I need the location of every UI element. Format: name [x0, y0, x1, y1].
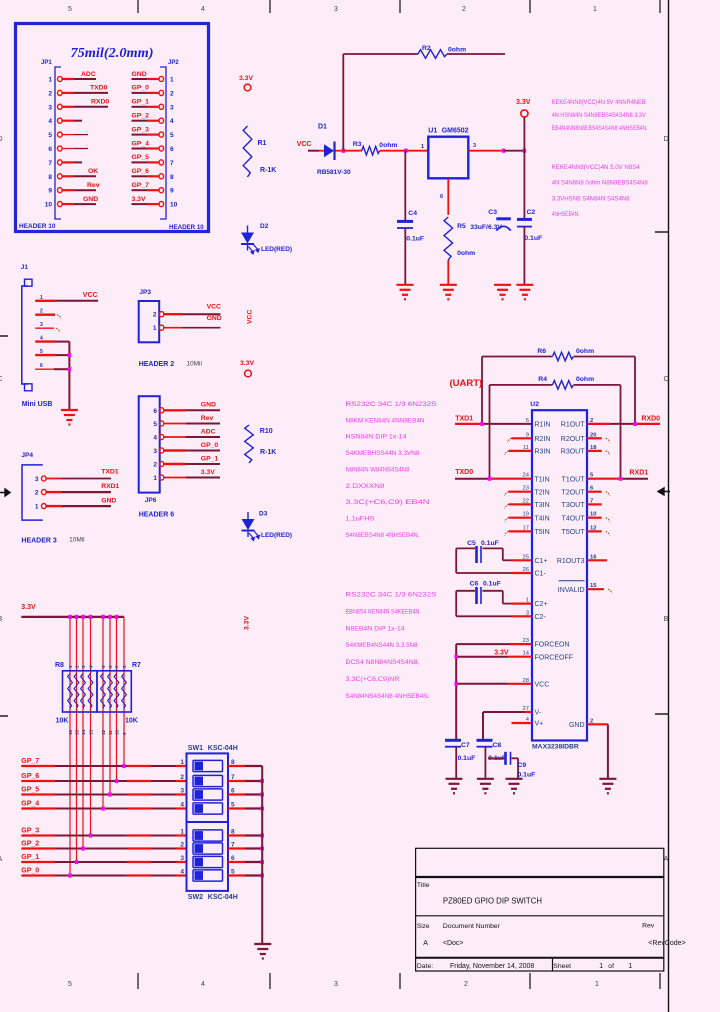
pin T2IN (23) of U2 — [523, 486, 550, 497]
svg-text:R5: R5 — [457, 223, 466, 230]
svg-text:2: 2 — [153, 312, 157, 319]
svg-text:Title: Title — [417, 882, 430, 889]
svg-text:1: 1 — [180, 759, 184, 766]
wire R4 right vertical — [620, 385, 622, 479]
svg-text:GP_5: GP_5 — [132, 154, 150, 161]
pin INVALID (15) of U2 — [558, 581, 597, 594]
korean note block UART upper — [346, 401, 438, 539]
connector JP4 — [21, 452, 46, 520]
svg-text:3: 3 — [81, 665, 86, 668]
svg-text:3.3V: 3.3V — [201, 469, 215, 476]
wire SW right pin row 2 — [228, 780, 262, 782]
pin T3OUT (7) of U2 — [562, 498, 594, 509]
svg-text:R2: R2 — [422, 45, 431, 52]
ground under C7 — [446, 779, 463, 794]
svg-text:1: 1 — [153, 325, 157, 332]
svg-text:3.3C(+C6,C9)NR: 3.3C(+C6,C9)NR — [346, 676, 400, 683]
frame left zone letters — [0, 136, 8, 863]
wire JP1 pin 10 — [62, 196, 98, 204]
pin T5IN (17) of U2 — [523, 525, 550, 536]
wire JP1 pin 2 — [62, 85, 108, 93]
svg-text:R8: R8 — [55, 662, 64, 669]
svg-text:10: 10 — [170, 202, 178, 209]
wire R2 rail right — [447, 53, 505, 55]
off-page arrow left — [0, 489, 10, 496]
svg-text:R3IN: R3IN — [535, 449, 551, 456]
svg-text:2: 2 — [75, 665, 80, 668]
junction at C4 top — [404, 149, 407, 153]
wire JP2 pin 4 net GP_2 — [132, 113, 160, 121]
svg-text:V-: V- — [535, 710, 542, 717]
svg-text:10K: 10K — [56, 718, 69, 725]
wire U2 T1OUT to RXD1 — [587, 469, 648, 478]
pin R1OUT3 (16) of U2 — [557, 554, 597, 565]
svg-text:10K: 10K — [125, 718, 138, 725]
pin R3IN (11) of U2 — [523, 445, 550, 456]
svg-text:TXD1: TXD1 — [101, 469, 119, 476]
svg-text:3.3V: 3.3V — [494, 650, 509, 657]
svg-text:JP1: JP1 — [41, 60, 52, 66]
wire TXD0 to U2 T1IN — [455, 469, 532, 479]
junction pullup to GP net — [89, 833, 92, 837]
svg-text:0ohm: 0ohm — [379, 142, 397, 149]
svg-text:GND: GND — [83, 196, 98, 203]
svg-text:0ohm: 0ohm — [576, 348, 594, 355]
pin R2OUT (20) of U2 — [561, 432, 597, 443]
svg-text:RXD1: RXD1 — [630, 469, 649, 476]
svg-text:RXD1: RXD1 — [101, 483, 119, 490]
svg-text:U2: U2 — [530, 401, 539, 408]
junction on gnd bus — [261, 833, 264, 837]
svg-text:3: 3 — [48, 104, 52, 111]
svg-text:5: 5 — [48, 132, 52, 139]
svg-text:3.3V: 3.3V — [21, 604, 36, 611]
svg-text:3.3V: 3.3V — [516, 99, 531, 106]
svg-text:T1OUT: T1OUT — [562, 476, 586, 483]
svg-text:15: 15 — [75, 729, 80, 735]
svg-text:1: 1 — [48, 77, 52, 84]
svg-text:9: 9 — [122, 732, 127, 735]
stub T3IN — [505, 504, 532, 508]
svg-text:LED(RED): LED(RED) — [261, 532, 292, 539]
capacitor C2 — [517, 151, 542, 285]
svg-text:VCC: VCC — [207, 303, 221, 310]
pin T1IN (24) of U2 — [523, 473, 550, 484]
stub R2IN — [508, 438, 533, 442]
wire J1 pin4 to gnd — [35, 342, 69, 410]
svg-text:HEADER 6: HEADER 6 — [139, 512, 175, 519]
svg-text:KEKE4NN8(VCC)4N 5V 4NNR4NEB: KEKE4NN8(VCC)4N 5V 4NNR4NEB — [552, 99, 646, 106]
junction RXD0/R6 — [633, 422, 636, 426]
svg-text:Sheet: Sheet — [553, 963, 571, 970]
wire U1 out to 3.3V node — [504, 150, 525, 152]
svg-text:Mini USB: Mini USB — [22, 401, 53, 408]
svg-text:GP_2: GP_2 — [21, 841, 39, 848]
svg-text:4: 4 — [153, 435, 157, 442]
junction on 3.3V rail — [81, 615, 84, 619]
pin T5OUT (12) of U2 — [562, 525, 597, 536]
svg-text:R1OUT3: R1OUT3 — [557, 558, 585, 565]
stub T4IN — [505, 518, 532, 522]
svg-text:HEADER 2: HEADER 2 — [139, 361, 175, 368]
svg-text:RB581V-30: RB581V-30 — [317, 169, 351, 176]
svg-text:1: 1 — [170, 77, 174, 84]
svg-text:R4: R4 — [538, 376, 547, 383]
junction at D1 cathode — [342, 149, 345, 153]
svg-text:C: C — [0, 376, 3, 383]
junction TXD0/R4 — [488, 477, 491, 481]
regulator U1 — [407, 128, 502, 216]
frame bottom ruler — [68, 973, 660, 989]
svg-text:10Mil: 10Mil — [69, 537, 85, 544]
wire JP4 pin1 GND — [46, 498, 116, 506]
svg-text:10: 10 — [115, 729, 120, 735]
junction on gnd bus — [261, 873, 264, 877]
junction pullup to GP net — [108, 792, 111, 796]
capacitor C8 — [477, 740, 507, 779]
stub V+ pin — [512, 722, 533, 724]
svg-text:DCS4 N8N84NS4S4N8,: DCS4 N8N84NS4S4N8, — [346, 659, 420, 666]
svg-text:GP_0: GP_0 — [132, 85, 150, 92]
pin T2OUT (6) of U2 — [562, 486, 594, 497]
svg-text:T2OUT: T2OUT — [562, 489, 586, 496]
svg-text:GND: GND — [201, 402, 216, 409]
svg-text:MAX3238IDBR: MAX3238IDBR — [532, 744, 579, 751]
wire JP3 pin1 GND — [164, 315, 222, 328]
diode D3 LED — [242, 511, 293, 541]
svg-text:11: 11 — [108, 730, 113, 735]
svg-text:2: 2 — [35, 490, 39, 497]
svg-text:3.3V: 3.3V — [240, 360, 254, 367]
svg-text:3.3V: 3.3V — [244, 616, 251, 630]
junction J1 pin5 — [68, 353, 71, 357]
ground under C9 — [506, 779, 523, 794]
svg-text:4N HSN84N S4N8EBS4S4S4N8 3.3V: 4N HSN84N S4N8EBS4S4S4N8 3.3V — [552, 112, 646, 119]
svg-text:3: 3 — [473, 143, 476, 149]
svg-text:1: 1 — [35, 504, 39, 511]
svg-text:10: 10 — [45, 202, 53, 209]
svg-text:8: 8 — [170, 174, 174, 181]
resistor R3 — [343, 141, 406, 155]
svg-text:N8KM KEN84N 4NN8EB4N: N8KM KEN84N 4NN8EB4N — [346, 417, 425, 424]
pin T1OUT (5) of U2 — [562, 473, 594, 484]
resistor R2 — [418, 45, 466, 58]
svg-text:KSC-04H: KSC-04H — [208, 894, 238, 901]
svg-text:D1: D1 — [318, 124, 327, 131]
ground under C8 — [477, 779, 494, 794]
resistor network R8 — [55, 662, 97, 725]
svg-text:(UART): (UART) — [450, 378, 483, 389]
svg-text:T5IN: T5IN — [535, 529, 550, 536]
svg-text:EBN8S4 KEN84N S4KEEB4N: EBN8S4 KEN84N S4KEEB4N — [346, 608, 420, 615]
wire J1 pin3 nc — [35, 328, 60, 332]
svg-text:N8N84N W84NS4S4N8: N8N84N W84NS4S4N8 — [346, 466, 410, 473]
wire JP2 pin 10 net 3.3V — [132, 196, 160, 204]
wire JP1 pin 6 — [62, 142, 89, 149]
stub T2OUT — [587, 492, 610, 496]
svg-text:1: 1 — [593, 6, 597, 13]
svg-text:0.1uF: 0.1uF — [483, 581, 501, 588]
svg-text:C3: C3 — [488, 209, 497, 216]
wire JP6 pin 4 net ADC — [164, 428, 220, 437]
svg-text:R3: R3 — [353, 141, 362, 148]
svg-text:..: .. — [86, 128, 89, 133]
pin R2IN (9) of U2 — [526, 432, 551, 443]
pin VCC (28) of U2 — [523, 678, 550, 689]
svg-text:5: 5 — [153, 421, 157, 428]
svg-text:C: C — [663, 376, 668, 383]
svg-text:4NHSEB4N.: 4NHSEB4N. — [552, 211, 580, 218]
svg-text:D2: D2 — [260, 223, 269, 230]
svg-text:TXD1: TXD1 — [455, 415, 473, 422]
svg-text:R3OUT: R3OUT — [561, 449, 585, 456]
wire JP2 pin 2 net GP_0 — [132, 85, 160, 93]
svg-text:Rev: Rev — [201, 415, 214, 422]
stub INVALID — [587, 589, 612, 593]
korean note block right second — [552, 164, 648, 218]
ic U2 MAX3238 body — [530, 401, 587, 751]
svg-text:8: 8 — [48, 174, 52, 181]
wire R2 rail left — [343, 53, 418, 55]
svg-text:7: 7 — [170, 160, 174, 167]
svg-text:B: B — [0, 616, 3, 623]
power symbol 3.3V (top spare) — [239, 75, 253, 91]
svg-text:<RevCode>: <RevCode> — [648, 940, 685, 947]
stub T5IN — [505, 531, 532, 535]
junction on gnd bus — [261, 806, 264, 810]
pin GND (2) of U2 — [569, 718, 593, 729]
svg-text:J1: J1 — [21, 264, 29, 271]
svg-text:KSC-04H: KSC-04H — [208, 745, 238, 752]
wire J1 pin6 — [35, 368, 69, 370]
svg-text:3: 3 — [170, 104, 174, 111]
wire JP2 pin 6 net GP_4 — [132, 140, 160, 148]
svg-text:0.1uF: 0.1uF — [481, 540, 499, 547]
svg-text:4: 4 — [180, 869, 184, 876]
off-page arrow right — [658, 488, 670, 495]
junction J1 pin6 — [68, 367, 71, 371]
svg-text:A: A — [664, 856, 669, 863]
svg-text:3: 3 — [40, 322, 43, 328]
resistor R10 — [245, 425, 277, 463]
wire net GP_2 — [21, 841, 186, 849]
svg-text:..: .. — [86, 142, 89, 147]
ground under J1 — [61, 410, 78, 425]
svg-text:T3IN: T3IN — [535, 502, 550, 509]
svg-text:4: 4 — [201, 6, 205, 13]
stub R2OUT — [587, 438, 610, 442]
svg-text:RXD0: RXD0 — [91, 99, 109, 106]
svg-text:GP_1: GP_1 — [201, 455, 219, 462]
svg-text:9: 9 — [48, 188, 52, 195]
wire JP6 pin 1 net 3.3V — [164, 469, 220, 478]
svg-text:B: B — [664, 616, 669, 623]
wire pullup column x124 — [123, 617, 125, 766]
dip switch SW1 — [180, 745, 237, 822]
wire JP2 pin 9 net GP_7 — [132, 182, 160, 190]
svg-text:Document Number: Document Number — [443, 923, 501, 930]
svg-text:1: 1 — [595, 981, 599, 988]
svg-text:2: 2 — [180, 842, 184, 849]
wire VCC to D1 — [308, 150, 319, 152]
svg-text:3: 3 — [334, 6, 338, 13]
connector JP1 — [41, 60, 62, 219]
svg-text:RS232C 34C 1/3 6N232S: RS232C 34C 1/3 6N232S — [346, 592, 438, 599]
svg-text:ADC: ADC — [81, 71, 96, 78]
svg-text:10Mil: 10Mil — [186, 360, 202, 367]
power symbol 3.3V (middle spare) — [240, 360, 254, 377]
wire TXD1 to U2 R1IN — [455, 415, 532, 424]
svg-text:1: 1 — [599, 963, 603, 970]
wire net GP_0 — [21, 868, 186, 876]
svg-text:C2: C2 — [527, 209, 536, 216]
junction pullup to GP net — [68, 873, 71, 877]
stub R3IN — [505, 451, 532, 455]
pin C2- (3) of U2 — [526, 610, 547, 621]
svg-text:T4OUT: T4OUT — [562, 515, 586, 522]
wire pullup column x90 — [90, 617, 92, 836]
pin T4IN (19) of U2 — [523, 512, 550, 523]
svg-text:R2IN: R2IN — [535, 436, 551, 443]
wire gnd bus vertical — [261, 766, 263, 944]
svg-text:S4N8EBS4N8 4NHSEB4N.: S4N8EBS4N8 4NHSEB4N. — [346, 532, 420, 539]
svg-text:HEADER 3: HEADER 3 — [21, 538, 57, 545]
svg-text:2: 2 — [170, 90, 174, 97]
svg-text:VCC: VCC — [83, 292, 98, 299]
svg-text:HEADER 10: HEADER 10 — [19, 223, 56, 230]
stub T2IN — [505, 492, 532, 496]
svg-text:C9: C9 — [518, 762, 527, 769]
capacitor C3 electrolytic — [470, 209, 511, 231]
resistor R1 — [243, 126, 276, 177]
junction VCC pin — [455, 682, 458, 686]
svg-text:GP_3: GP_3 — [21, 828, 39, 835]
svg-text:7: 7 — [115, 665, 120, 668]
svg-text:4N S4N8N8 0ohm N8N8EBS4S4N8: 4N S4N8N8 0ohm N8N8EBS4S4N8 — [552, 180, 648, 187]
svg-text:6: 6 — [440, 194, 443, 200]
wire net GP_6 — [21, 773, 186, 781]
title block outline — [416, 848, 664, 971]
wire D1 junction up to R2 rail — [342, 54, 344, 151]
wire J1 pin1 VCC — [35, 292, 98, 301]
pin FORCEON (23) of U2 — [523, 638, 570, 649]
pin R3OUT (18) of U2 — [561, 445, 597, 456]
wire FORCEOFF — [456, 656, 532, 658]
svg-text:VCC: VCC — [247, 310, 254, 324]
svg-text:1.1uFHS: 1.1uFHS — [346, 515, 376, 522]
wire net GP_1 — [21, 854, 186, 862]
svg-text:U1: U1 — [428, 128, 437, 135]
svg-text:RS232C 34C 1/3 6N232S: RS232C 34C 1/3 6N232S — [346, 401, 438, 408]
svg-text:2: 2 — [48, 90, 52, 97]
svg-text:7: 7 — [48, 160, 52, 167]
svg-text:C2-: C2- — [535, 614, 547, 621]
wire net GP_3 — [21, 828, 186, 836]
svg-text:3: 3 — [180, 855, 184, 862]
svg-text:KEKE4NN8(VCC)4N 5.0V N8S4: KEKE4NN8(VCC)4N 5.0V N8S4 — [552, 164, 640, 171]
svg-text:GND: GND — [132, 71, 147, 78]
svg-text:3.3V: 3.3V — [132, 196, 146, 203]
svg-text:T3OUT: T3OUT — [562, 502, 586, 509]
svg-text:R10: R10 — [260, 428, 273, 435]
pin V- (27) of U2 — [523, 706, 542, 717]
svg-text:A: A — [423, 940, 428, 947]
junction pullup to GP net — [81, 846, 84, 850]
svg-text:GP_6: GP_6 — [132, 168, 150, 175]
svg-text:LED(RED): LED(RED) — [261, 246, 292, 253]
svg-text:RXD0: RXD0 — [641, 415, 660, 422]
svg-text:GM6502: GM6502 — [442, 128, 469, 135]
pin C1+ (25) of U2 — [523, 554, 548, 565]
svg-text:GND: GND — [569, 722, 585, 729]
svg-text:3.3C(+C6,C9) EB4N: 3.3C(+C6,C9) EB4N — [346, 499, 430, 506]
wire pullup column x116 — [116, 617, 118, 781]
wire SW right pin row 3 — [228, 793, 262, 795]
svg-text:4: 4 — [89, 665, 94, 668]
wire JP1 pin 4 — [62, 120, 82, 122]
svg-text:6: 6 — [153, 408, 157, 415]
stub T4OUT — [587, 518, 610, 522]
svg-text:6: 6 — [48, 146, 52, 153]
junction on gnd bus — [261, 792, 264, 796]
svg-text:6: 6 — [170, 146, 174, 153]
wire JP1 pin 7 — [62, 161, 82, 163]
svg-text:GP_1: GP_1 — [21, 854, 39, 861]
svg-text:1: 1 — [421, 144, 424, 150]
svg-text:GP_2: GP_2 — [132, 113, 150, 120]
svg-text:8: 8 — [122, 665, 127, 668]
pin C2+ (1) of U2 — [526, 598, 548, 609]
svg-text:D: D — [0, 136, 3, 143]
svg-text:0ohm: 0ohm — [448, 46, 466, 53]
svg-text:HSN84N DIP 1x-14: HSN84N DIP 1x-14 — [346, 434, 407, 441]
svg-text:T5OUT: T5OUT — [562, 529, 586, 536]
wire R6 right vertical — [634, 357, 636, 424]
svg-text:EB4N4NN8N8EBS4S4S4N8 4NHSEB4N.: EB4N4NN8N8EBS4S4S4N8 4NHSEB4N. — [552, 125, 648, 132]
svg-text:VCC: VCC — [297, 141, 312, 148]
wire net GP_7 — [21, 758, 186, 766]
wire SW right pin row 5 — [228, 834, 262, 836]
svg-text:6: 6 — [40, 363, 43, 369]
junction FORCEOFF — [455, 655, 458, 659]
wire pullup column x76 — [76, 617, 78, 862]
capacitor C9 — [488, 752, 535, 779]
junction pullup to GP net — [122, 764, 125, 768]
svg-text:HEADER 10: HEADER 10 — [169, 224, 204, 231]
wire net GP_4 — [21, 801, 186, 809]
svg-text:INVALID: INVALID — [558, 587, 585, 594]
svg-text:V+: V+ — [535, 721, 544, 728]
svg-text:6: 6 — [108, 665, 113, 668]
svg-text:R6: R6 — [537, 348, 546, 355]
svg-text:SW2: SW2 — [188, 894, 203, 901]
svg-text:GP_5: GP_5 — [21, 787, 39, 794]
junction 3.3V node — [523, 149, 526, 153]
wire J1 pin5 — [35, 354, 69, 356]
svg-text:2: 2 — [464, 981, 468, 988]
svg-text:N8EB4N DIP 1x-14: N8EB4N DIP 1x-14 — [346, 625, 405, 632]
korean note block UART lower — [346, 592, 438, 700]
svg-text:JP2: JP2 — [168, 60, 179, 66]
wire JP6 pin 2 net GP_1 — [164, 455, 220, 464]
wire JP1 pin 8 — [62, 168, 98, 176]
svg-text:4: 4 — [48, 118, 52, 125]
frame right zone letters — [655, 136, 669, 863]
svg-text:4: 4 — [170, 118, 174, 125]
wire JP2 pin 1 net GND — [132, 71, 160, 79]
wire JP3 pin2 VCC — [164, 303, 221, 314]
stub R1OUT3 — [587, 559, 607, 561]
